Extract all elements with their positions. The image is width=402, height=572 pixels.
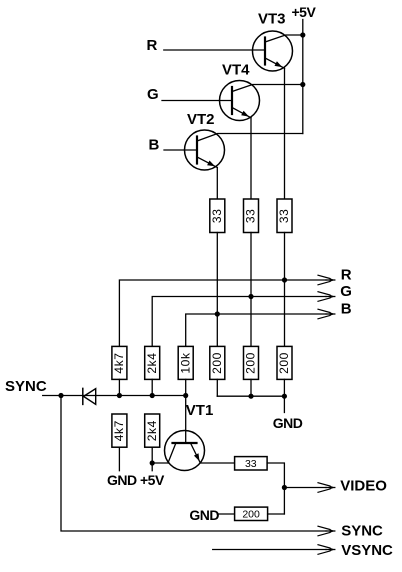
label +5V (292, 4, 317, 20)
wire SYNC input line (43, 395, 186, 397)
resistor 200 (B channel to GND) (210, 346, 225, 379)
label GND (under 200 resistors) (273, 415, 303, 431)
wire 200 to video column (268, 513, 285, 515)
svg-text:2k4: 2k4 (145, 420, 159, 441)
svg-text:B: B (341, 301, 352, 318)
node GND rail right (282, 394, 287, 399)
resistor 33 (VT4 emitter) (244, 199, 259, 233)
resistor 2k4 (G to sync) (145, 346, 160, 379)
wire lower 2k4 to +5V stub (151, 447, 153, 471)
label +5V (bottom) (140, 472, 165, 488)
wire VSYNC line (213, 549, 326, 551)
wire B input to VT2 base (164, 149, 197, 151)
wire column below left 33 to B line and 200 (216, 233, 218, 347)
wire VT4 emitter column (250, 118, 252, 199)
wire G input to VT4 base (162, 100, 232, 102)
arrow VSYNC output (318, 545, 335, 555)
wire 4k7 bottom to sync line (118, 379, 120, 395)
label GND (video divider) (189, 507, 219, 523)
resistor 200 (R channel to GND) (277, 346, 292, 379)
label VT3 (258, 11, 286, 28)
svg-text:33: 33 (244, 209, 258, 224)
label VSYNC (341, 542, 393, 559)
node R line to VT3 emitter resistor (282, 277, 287, 282)
svg-text:VT2: VT2 (187, 111, 215, 128)
wire VT1 collector to +5V node (152, 462, 168, 464)
label GND (bottom left) (107, 472, 137, 488)
svg-text:VIDEO: VIDEO (340, 477, 387, 494)
wire column below middle 33 to G line and 200 (250, 233, 252, 347)
node G line to VT4 emitter resistor (248, 294, 253, 299)
label B output (341, 301, 352, 318)
svg-text:R: R (341, 267, 352, 284)
wire GND to 200 resistor (217, 513, 234, 515)
label G input (147, 86, 159, 103)
label VIDEO (340, 477, 387, 494)
svg-text:33: 33 (245, 458, 257, 470)
svg-text:33: 33 (277, 209, 291, 224)
svg-text:R: R (147, 37, 158, 54)
resistor 33 (VT3 emitter) (277, 199, 292, 233)
wire 200 columns to GND rail (217, 379, 284, 396)
svg-text:GND: GND (189, 507, 219, 523)
wire VIDEO output line (284, 487, 326, 489)
wire VT1 emitter to 33 resistor (200, 462, 234, 464)
label G output (340, 283, 352, 300)
transistor VT4 (220, 81, 303, 121)
wire G output line (152, 297, 326, 347)
svg-text:4k7: 4k7 (112, 420, 126, 441)
arrow R output (318, 275, 335, 285)
svg-text:SYNC: SYNC (5, 378, 47, 395)
svg-text:+5V: +5V (292, 4, 317, 20)
label VT2 (187, 111, 215, 128)
svg-text:200: 200 (277, 352, 291, 374)
arrow B output (318, 309, 335, 319)
resistor 200 (G channel to GND) (244, 346, 259, 379)
svg-text:VT3: VT3 (258, 11, 286, 28)
svg-text:200: 200 (210, 352, 224, 374)
resistor 33 (video out) (235, 457, 268, 471)
label R output (341, 267, 352, 284)
label SYNC input (5, 378, 47, 395)
label SYNC output (341, 522, 383, 539)
resistor 200 (video to GND) (235, 507, 268, 521)
label VT1 (186, 402, 214, 419)
arrow VIDEO output (318, 483, 335, 493)
svg-text:B: B (149, 137, 160, 154)
svg-text:G: G (340, 283, 352, 300)
resistor 10k (B to sync) (178, 346, 193, 379)
wire 10k bottom to sync line (185, 379, 187, 395)
label B input (149, 137, 160, 154)
transistor VT1 (165, 431, 205, 471)
svg-text:GND: GND (273, 415, 303, 431)
svg-text:VT4: VT4 (222, 62, 250, 79)
wire 33 to video node (267, 463, 284, 514)
resistor 33 (VT2 emitter) (210, 199, 225, 233)
node 2k4/+5V/VT1 collector (150, 460, 155, 465)
svg-text:+5V: +5V (140, 472, 165, 488)
svg-text:VSYNC: VSYNC (341, 542, 393, 559)
node VT3 collector to +5V (300, 32, 305, 37)
wire R input to VT3 base (164, 49, 265, 51)
arrow SYNC output (318, 526, 335, 536)
wire SYNC feedthrough (61, 396, 326, 532)
resistor 2k4 (base to +5V) (145, 414, 160, 447)
wire lower 4k7 to GND stub (118, 447, 120, 471)
wire +5V rail (302, 20, 304, 134)
svg-text:G: G (147, 86, 159, 103)
svg-text:33: 33 (210, 209, 224, 224)
svg-text:200: 200 (242, 509, 260, 521)
node B line to VT2 emitter resistor (215, 311, 220, 316)
wire 2k4 bottom to sync line (151, 379, 153, 395)
svg-text:VT1: VT1 (186, 402, 214, 419)
node GND rail middle (248, 394, 253, 399)
resistor 4k7 (R to sync) (112, 346, 127, 379)
wire VT2 emitter column (216, 168, 218, 200)
wire B output line (186, 314, 326, 346)
label VT4 (222, 62, 250, 79)
wire column below right 33 to R line and 200 (284, 233, 286, 347)
node VT4 collector to +5V (300, 82, 305, 87)
diode VD1 (83, 388, 96, 404)
svg-text:SYNC: SYNC (341, 522, 383, 539)
wire R output line (119, 280, 326, 346)
arrow G output (318, 292, 335, 302)
wire VT1 base column (185, 396, 187, 444)
transistor VT3 (253, 31, 303, 71)
svg-text:4k7: 4k7 (112, 352, 126, 373)
wire GND rail under 200 resistors (217, 396, 284, 412)
transistor VT2 (185, 130, 303, 170)
wire VT3 emitter column (284, 68, 286, 199)
svg-text:10k: 10k (178, 352, 192, 374)
node sync/10k/VT1 base junction (183, 393, 188, 398)
node sync/2k4 junction (150, 393, 155, 398)
node sync/4k7 junction (117, 393, 122, 398)
node SYNC branch (58, 393, 63, 398)
svg-text:2k4: 2k4 (145, 352, 159, 373)
svg-text:200: 200 (244, 352, 258, 374)
resistor 4k7 (base to GND) (112, 414, 127, 447)
node video junction (282, 485, 287, 490)
svg-text:GND: GND (107, 472, 137, 488)
label R input (147, 37, 158, 54)
